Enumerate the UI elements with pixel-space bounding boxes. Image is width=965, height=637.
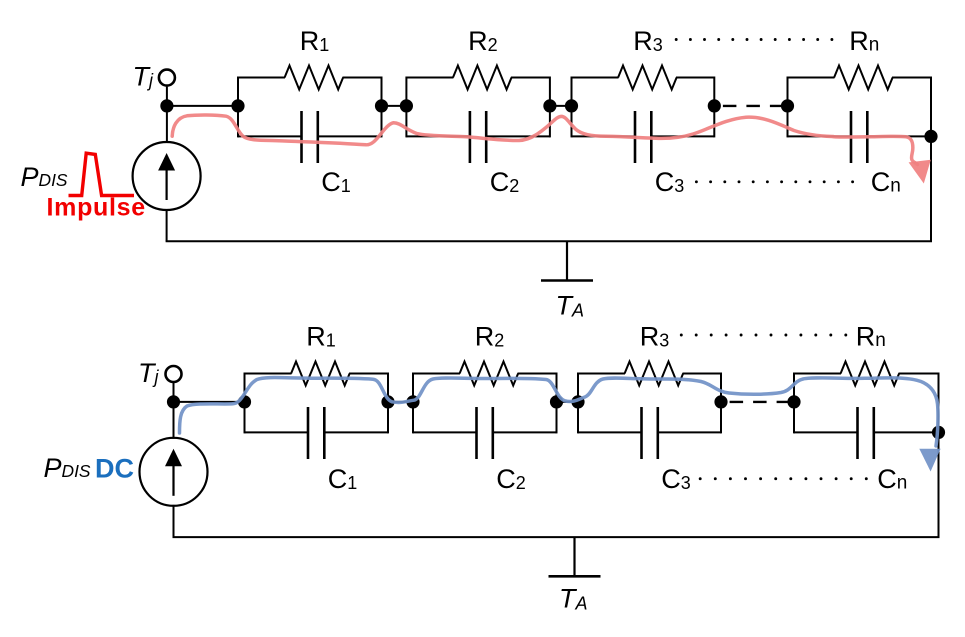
node dot left of stage 3, bottom circuit	[571, 395, 584, 408]
resistor R2 (zigzag in top branch)	[406, 77, 453, 79]
wire stage3-stage n (dashed, omitted stages), bottom circuit	[730, 401, 791, 403]
RC stage 1: left vertical wire	[237, 77, 239, 138]
node dot right of stage 1, bottom circuit	[381, 395, 394, 408]
node dot right of stage 1, top circuit	[375, 99, 388, 112]
impulse waveform icon (red)	[69, 153, 135, 195]
RC stage n: left vertical wire	[793, 373, 795, 434]
capacitor C3 (plates in bottom branch)	[578, 431, 642, 433]
RC stage 3: right vertical wire	[713, 77, 715, 138]
red arrowhead at output	[909, 160, 931, 184]
wire Tj down to junction and on to current source, top circuit	[166, 87, 168, 143]
capacitor C3 (plates in bottom branch)	[572, 135, 636, 137]
node dot left of stage 2, bottom circuit	[406, 395, 419, 408]
capacitor C2 (plates in bottom branch)	[413, 431, 477, 433]
RC stage n: right vertical wire	[938, 373, 940, 434]
current source P_DIS, top circuit	[133, 142, 201, 210]
node dot at last-stage output junction, top circuit	[924, 130, 937, 143]
RC stage 1: right vertical wire	[381, 77, 383, 138]
node dot left of stage 3, top circuit	[565, 99, 578, 112]
RC stage n: left vertical wire	[787, 77, 789, 138]
red impulse heat-flow curve	[172, 115, 917, 165]
node Tj terminal (open circle), top circuit	[159, 70, 175, 86]
wire stage1-stage2, top circuit	[382, 105, 407, 107]
wire junction to stage 1, top circuit	[167, 105, 238, 107]
RC stage 1: right vertical wire	[387, 373, 389, 434]
capacitor Cn (plates in bottom branch)	[788, 135, 852, 137]
svg-text:Impulse: Impulse	[47, 194, 146, 222]
node dot left of stage 2, top circuit	[400, 99, 413, 112]
capacitor C1 (plates in bottom branch)	[238, 135, 302, 137]
wire stage1-stage2, bottom circuit	[388, 401, 413, 403]
wire junction to stage 1, bottom circuit	[174, 401, 245, 403]
ground symbol T_A, top circuit	[566, 241, 568, 280]
RC stage 2: right vertical wire	[556, 373, 558, 434]
resistor Rn (zigzag in top branch)	[788, 77, 835, 79]
resistor Rn (zigzag in top branch)	[794, 373, 841, 375]
wire Tj down to junction and on to current source, bottom circuit	[173, 383, 175, 439]
resistor R1 (zigzag in top branch)	[245, 373, 292, 375]
dotted continuation row between R3 and Rn, top circuit	[675, 38, 834, 41]
dotted continuation row between C3 and Cn, bottom circuit	[699, 477, 868, 480]
resistor R1 (zigzag in top branch)	[238, 77, 285, 79]
resistor R3 (zigzag in top branch)	[578, 373, 625, 375]
node Tj terminal (open circle), bottom circuit	[166, 366, 182, 382]
node dot at last-stage output junction, bottom circuit	[932, 426, 945, 439]
node dot right of stage 3, top circuit	[708, 99, 721, 112]
RC stage 2: left vertical wire	[405, 77, 407, 138]
node Tj junction dot, top circuit	[160, 99, 173, 112]
capacitor Cn (plates in bottom branch)	[794, 431, 858, 433]
RC stage 2: right vertical wire	[549, 77, 551, 138]
node dot left of stage 1, top circuit	[231, 99, 244, 112]
node dot right of stage 2, top circuit	[543, 99, 556, 112]
wire right riser from last stage to rail, bottom circuit	[938, 432, 940, 537]
RC stage n: right vertical wire	[930, 77, 932, 138]
blue DC heat-flow curve	[180, 378, 939, 446]
svg-text:DC: DC	[95, 454, 134, 484]
wire stage2-stage3, bottom circuit	[557, 401, 579, 403]
blue arrowhead at output	[919, 449, 940, 472]
wire source to bottom rail, top circuit	[166, 209, 168, 241]
dotted continuation row between R3 and Rn, bottom circuit	[680, 334, 847, 337]
node dot left of stage n, bottom circuit	[787, 395, 800, 408]
RC stage 3: left vertical wire	[577, 373, 579, 434]
RC stage 1: left vertical wire	[244, 373, 246, 434]
capacitor C2 (plates in bottom branch)	[406, 135, 470, 137]
node dot left of stage n, top circuit	[781, 99, 794, 112]
RC stage 3: left vertical wire	[571, 77, 573, 138]
node dot right of stage 3, bottom circuit	[714, 395, 727, 408]
capacitor C1 (plates in bottom branch)	[245, 431, 309, 433]
resistor R2 (zigzag in top branch)	[413, 373, 460, 375]
wire source to bottom rail, bottom circuit	[173, 505, 175, 537]
node dot left of stage 1, bottom circuit	[238, 395, 251, 408]
wire bottom rail (ambient), top circuit	[166, 240, 932, 242]
wire bottom rail (ambient), bottom circuit	[173, 536, 940, 538]
wire stage3-stage n (dashed, omitted stages), top circuit	[723, 105, 784, 107]
current source P_DIS, bottom circuit	[140, 438, 208, 506]
ground symbol T_A, bottom circuit	[573, 537, 575, 577]
node dot right of stage 2, bottom circuit	[550, 395, 563, 408]
node Tj junction dot, bottom circuit	[167, 395, 180, 408]
RC stage 3: right vertical wire	[720, 373, 722, 434]
resistor R3 (zigzag in top branch)	[572, 77, 619, 79]
wire right riser from last stage to rail, top circuit	[930, 136, 932, 241]
dotted continuation row between C3 and Cn, top circuit	[695, 180, 854, 183]
RC stage 2: left vertical wire	[412, 373, 414, 434]
wire stage2-stage3, top circuit	[550, 105, 572, 107]
